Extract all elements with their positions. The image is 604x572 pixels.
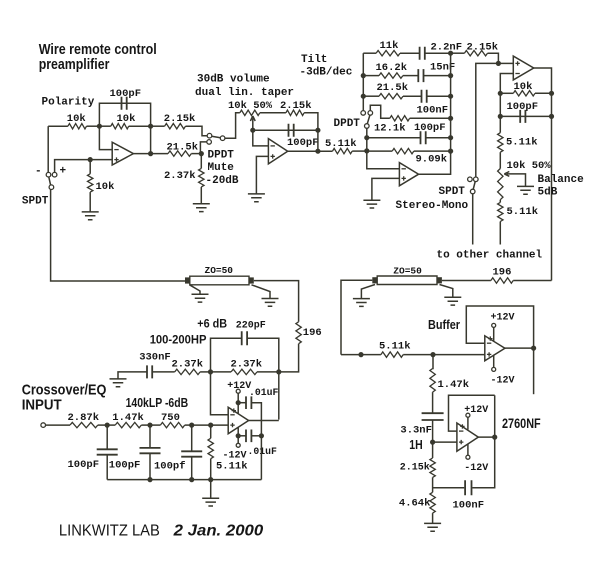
label 10k 50% <box>228 100 273 112</box>
capacitor 15nF <box>418 69 423 82</box>
wiper arrow volume pot <box>250 116 255 130</box>
resistor 2.37k hp feedback <box>231 369 257 374</box>
svg-text:2.15k: 2.15k <box>280 100 312 112</box>
node vol fb left <box>250 128 255 133</box>
node rbus row1 <box>448 51 453 56</box>
ground under U2 <box>248 194 265 202</box>
wire 5.11k to rail <box>210 459 212 480</box>
DPDT tilt lever <box>367 115 370 124</box>
tilt right bus <box>450 53 452 151</box>
wire -12V to U5 <box>237 427 239 443</box>
node lp3 <box>189 423 194 428</box>
label .01uF bottom <box>248 446 278 457</box>
svg-text:5.11k: 5.11k <box>325 138 357 150</box>
svg-text:3.3nF: 3.3nF <box>400 424 432 436</box>
signature LINKWITZ LAB <box>59 522 160 539</box>
wire chain top <box>499 93 501 132</box>
wire coax2 right to 196 <box>442 280 491 282</box>
label Tilt <box>301 54 327 66</box>
wire 2.15k to mute pole <box>186 126 208 136</box>
wire R10k to node A1 <box>87 125 100 127</box>
ground coax2 left <box>353 299 370 307</box>
coax 1 left ground stub <box>190 285 201 295</box>
wire cap loop <box>99 103 150 126</box>
wire 2.15k to junction <box>432 477 434 492</box>
wire n2 to 750 <box>150 424 160 426</box>
label plus polarity <box>60 166 67 178</box>
wire input to 2.87k <box>46 424 71 426</box>
resistor 2.15k vol feedback <box>286 110 304 115</box>
wire mono output <box>418 151 450 174</box>
resistor 16.2k <box>379 73 403 78</box>
buffer feedback box <box>466 306 533 348</box>
node vol fb right <box>315 128 320 133</box>
power terminal -12V U5 <box>236 443 240 447</box>
label 30dB volume <box>197 74 270 86</box>
resistor 2.15k sum <box>464 51 487 56</box>
wire mono pole down <box>472 194 474 245</box>
svg-text:5.11k: 5.11k <box>379 341 411 353</box>
label 100pF lp2 <box>109 460 141 472</box>
ground coax2 right <box>444 297 461 305</box>
label ZO=50 coax1 <box>205 265 234 276</box>
op-amp U3 stereo-mono <box>399 163 418 186</box>
coax 2 right ground stub <box>440 285 453 298</box>
node bus B row5 <box>364 135 369 140</box>
node lp1 <box>105 423 110 428</box>
svg-text:Tilt: Tilt <box>301 54 327 66</box>
node rbus row3 <box>448 94 453 99</box>
wire row2 mid <box>403 75 418 77</box>
wire vol fb row <box>253 129 318 131</box>
label Buffer <box>428 317 460 332</box>
node bypass bottom <box>236 433 241 438</box>
svg-text:ZO=50: ZO=50 <box>205 265 234 276</box>
label 3.3nF <box>400 424 432 436</box>
DPDT mute throw2 <box>207 140 212 145</box>
svg-text:100pF: 100pF <box>507 101 539 113</box>
wire pot to 2.15k <box>260 112 286 114</box>
node lp2 <box>147 423 152 428</box>
node fb 10k left <box>498 91 503 96</box>
label DPDT mute <box>208 150 235 162</box>
wire mute throw2 to divider <box>200 142 206 154</box>
capacitor 100nF tilt <box>422 90 427 103</box>
label 16.2k <box>376 62 408 74</box>
ground 330nF <box>110 379 127 387</box>
SPDT polarity throw + <box>52 172 57 177</box>
label 5dB <box>538 186 558 198</box>
svg-text:2.37k: 2.37k <box>172 359 204 371</box>
wire node B to 196 <box>279 344 299 372</box>
wire 5.11k to node <box>352 150 367 152</box>
resistor 21.5k <box>168 151 191 156</box>
svg-text:21.5k: 21.5k <box>167 141 199 153</box>
label 100pF tilt <box>414 122 446 134</box>
svg-text:1.47k: 1.47k <box>112 412 144 424</box>
coax 2 right cap <box>437 277 442 283</box>
wire 10k gnd top <box>89 160 91 174</box>
svg-text:21.5k: 21.5k <box>377 82 409 94</box>
DPDT mute throw1 <box>220 136 225 141</box>
label dual lin. taper <box>195 87 294 99</box>
svg-text:4.64k: 4.64k <box>399 498 431 510</box>
wire buffer output <box>505 347 534 349</box>
svg-text:100pF: 100pF <box>287 137 319 149</box>
svg-text:Polarity: Polarity <box>42 96 95 108</box>
label 2760NF <box>502 416 541 431</box>
wire hp fb loop <box>211 338 242 372</box>
resistor 12.1k <box>390 116 410 121</box>
wire node down to 1.47k <box>432 355 434 369</box>
coax 2 body <box>377 276 437 285</box>
wire 750 to n3 <box>185 424 192 426</box>
wire 10k fb row <box>500 92 513 94</box>
node A1 junction <box>97 124 102 129</box>
input terminal <box>41 423 46 428</box>
wire bypass top lead <box>238 402 246 404</box>
label 2.37k hp1 <box>172 359 204 371</box>
svg-text:2760NF: 2760NF <box>502 416 541 431</box>
svg-text:2.2nF: 2.2nF <box>431 41 463 53</box>
ground coax1 left <box>192 294 209 302</box>
wire -12V to buffer <box>493 355 495 368</box>
wire 100pF row sum <box>500 115 551 117</box>
node bypass top <box>236 400 241 405</box>
wire 1.47k to n2 <box>141 424 150 426</box>
power terminal -12V 2760 <box>466 455 470 459</box>
label 100pF <box>110 88 142 100</box>
capacitor 100pf lp3 top lead <box>191 425 193 451</box>
node rbus row4 <box>448 116 453 121</box>
svg-text:2.37k: 2.37k <box>164 170 196 182</box>
wire 10k fb right <box>535 92 552 94</box>
wire row3 left <box>363 95 379 97</box>
wire row5 <box>367 137 421 139</box>
node rail 3 <box>189 477 194 482</box>
wire row3 mid <box>403 95 422 97</box>
svg-text:196: 196 <box>493 266 512 278</box>
wire 2.15k to right <box>304 113 318 130</box>
label 5.11k upper <box>506 136 538 148</box>
coax 1 body <box>190 276 249 285</box>
wire U2 output <box>288 150 333 152</box>
wire pot to 5.11k lower <box>499 200 501 203</box>
resistor 4.64k <box>430 492 435 513</box>
resistor 5.11k lp <box>208 438 213 458</box>
wire 2.15k to sum node <box>488 53 499 63</box>
label 10k sum <box>514 81 533 93</box>
wire coax2 left <box>341 280 372 354</box>
svg-text:100nF: 100nF <box>417 105 449 117</box>
SPDT polarity throw - <box>46 172 51 177</box>
svg-text:dual lin. taper: dual lin. taper <box>195 87 294 99</box>
svg-text:750: 750 <box>161 412 180 424</box>
wire node B1 down to output <box>150 126 152 153</box>
wire node to 9.09k <box>367 150 392 152</box>
capacitor 100pF lp2 bottom lead <box>149 453 151 479</box>
wire n1 to 1.47k <box>107 424 115 426</box>
svg-text:30dB volume: 30dB volume <box>197 74 270 86</box>
label 2.15k sum <box>467 41 499 53</box>
node buffer output <box>531 346 536 351</box>
ground 2760 chain <box>424 523 441 531</box>
label 196 coax <box>303 327 322 339</box>
node rail 4 <box>208 477 213 482</box>
svg-text:10k: 10k <box>514 81 533 93</box>
svg-text:ZO=50: ZO=50 <box>393 265 422 276</box>
wire row1 right <box>425 52 451 54</box>
label +12V 2760 <box>464 405 488 416</box>
label -12V 2760 <box>464 463 488 474</box>
label +12V buffer <box>491 313 515 324</box>
resistor 5.11k upper <box>498 133 503 153</box>
wire vol inv input <box>253 130 269 146</box>
svg-text:100pF: 100pF <box>109 460 141 472</box>
svg-text:2.15k: 2.15k <box>400 462 430 474</box>
svg-text:SPDT: SPDT <box>439 186 466 198</box>
node 100pF left <box>498 114 503 119</box>
svg-text:SPDT: SPDT <box>22 196 49 208</box>
wire -12V to 2760 <box>467 444 469 455</box>
svg-text:5.11k: 5.11k <box>506 136 538 148</box>
resistor 21.5k tilt <box>379 94 403 99</box>
resistor 196 coax <box>296 322 301 344</box>
svg-text:10k: 10k <box>96 181 115 193</box>
label 2.37k hp2 <box>231 359 263 371</box>
wire sum node to + <box>498 62 513 64</box>
resistor 10k input <box>68 124 87 129</box>
ground under U3 <box>363 200 380 208</box>
label minus polarity <box>35 166 42 178</box>
node 100pF right <box>549 114 554 119</box>
label 1.47k buf <box>438 379 470 391</box>
wire vol + to ground <box>256 156 268 194</box>
wiper arrow balance <box>504 172 516 177</box>
resistor 1.47k lp <box>115 422 141 427</box>
label 2.15k vol fb <box>280 100 312 112</box>
2760 feedback box <box>449 395 495 431</box>
label Mute <box>208 162 235 174</box>
op-amp U1 polarity <box>112 142 133 165</box>
label 100pF lp1 <box>68 459 100 471</box>
node lp4 <box>208 423 213 428</box>
power terminal -12V buffer <box>492 367 496 371</box>
DPDT tilt throw left <box>361 111 366 116</box>
wire divider node down <box>200 154 202 169</box>
wire tilt pole down <box>367 128 400 169</box>
svg-text:11k: 11k <box>380 40 399 52</box>
label Crossover/EQ <box>22 381 107 398</box>
ground coax1 right <box>262 299 279 307</box>
wire 220pF right <box>247 338 279 372</box>
capacitor 100pf lp3 <box>181 451 202 456</box>
svg-text:-20dB: -20dB <box>206 175 239 187</box>
resistor 1.47k buf <box>430 369 435 393</box>
svg-text:Mute: Mute <box>208 162 235 174</box>
wire bypass bottom leads <box>238 435 246 437</box>
op-amp U4 summing <box>513 56 533 80</box>
DPDT mute lever <box>212 136 221 138</box>
resistor 2.37k to ground <box>199 168 204 187</box>
node bus row3 <box>361 94 366 99</box>
label to other channel <box>437 250 543 262</box>
node B1 junction <box>148 124 153 129</box>
node bypass link bottom <box>259 433 264 438</box>
resistor 750 <box>160 422 184 427</box>
label 5.11k mono <box>325 138 357 150</box>
wire noninverting input <box>55 160 113 173</box>
wire gnd to 330nF <box>118 372 147 379</box>
wire row4 right <box>410 117 451 119</box>
wire 2.37k fb to node B <box>257 371 279 373</box>
node bus row2 <box>361 73 366 78</box>
capacitor 100pF lp1 top lead <box>106 425 108 449</box>
svg-text:-12V: -12V <box>491 375 515 386</box>
wire +12V to U5 <box>237 393 239 413</box>
label 2.15k chain <box>400 462 430 474</box>
resistor 196 channel <box>491 278 513 283</box>
label 196 channel <box>493 266 512 278</box>
ground rail <box>107 479 261 481</box>
label ZO=50 coax2 <box>393 265 422 276</box>
label 330nF <box>139 351 171 363</box>
label 1H <box>409 437 422 452</box>
signature date <box>173 522 264 539</box>
capacitor 100pF sum <box>520 110 525 123</box>
DPDT tilt pole <box>365 124 370 129</box>
svg-text:100-200HP: 100-200HP <box>150 333 207 347</box>
svg-text:Stereo-Mono: Stereo-Mono <box>396 200 469 212</box>
wire U5 output <box>248 420 278 422</box>
op-amp U5 140kLP <box>228 407 248 434</box>
wire row2 left <box>363 75 379 77</box>
wire row5 right <box>426 137 451 139</box>
wire 10k to ground sym <box>89 192 91 212</box>
svg-text:Buffer: Buffer <box>428 317 460 332</box>
capacitor 100pF lp1 <box>97 449 118 454</box>
svg-text:220pF: 220pF <box>236 321 266 332</box>
node 1H <box>430 440 435 445</box>
wire node B down to U5 out <box>278 372 280 420</box>
svg-text:15nF: 15nF <box>430 62 455 74</box>
resistor 10k to ground <box>88 174 93 192</box>
coax 1 right cap <box>249 277 254 283</box>
node buffer in mystery <box>358 352 363 357</box>
node B hp <box>276 369 281 374</box>
capacitor .01uF bottom <box>246 430 251 443</box>
svg-text:2.87k: 2.87k <box>68 412 100 424</box>
label 21.5k tilt <box>377 82 409 94</box>
wire row3 right <box>427 95 451 97</box>
wire 5.11k to pot <box>499 152 501 168</box>
wire mono + to gnd <box>372 178 400 200</box>
wire rail to ground <box>210 480 212 499</box>
svg-text:5dB: 5dB <box>538 186 558 198</box>
capacitor 100pF polarity feedback <box>122 97 127 110</box>
SPDT polarity lever <box>49 177 51 185</box>
svg-text:10k 50%: 10k 50% <box>228 100 273 112</box>
label 100nF <box>417 105 449 117</box>
wire row2 right <box>424 75 451 77</box>
wire bypass to rail <box>260 436 262 480</box>
label 2.87k <box>68 412 100 424</box>
wire n3 to n4 <box>192 424 211 426</box>
svg-text:2.15k: 2.15k <box>467 41 499 53</box>
node buffer input <box>430 352 435 357</box>
label 2.15k <box>164 113 196 125</box>
svg-text:10k: 10k <box>117 113 136 125</box>
label 220pF <box>236 321 266 332</box>
svg-text:preamplifier: preamplifier <box>39 56 110 73</box>
wire buffer + row <box>341 354 381 356</box>
wire input to R 10k <box>48 125 68 127</box>
coax 2 left ground stub <box>361 285 375 299</box>
svg-text:Balance: Balance <box>538 174 585 186</box>
wire 2.37k to node A <box>200 371 210 373</box>
label -12V buffer <box>491 375 515 386</box>
resistor 10k sum fb <box>513 91 535 96</box>
wire sum node to mono switch <box>476 63 499 177</box>
wire 5.11k to buffer node <box>403 354 433 356</box>
node bus B row6 <box>364 148 369 153</box>
ground balance wiper <box>517 186 534 194</box>
svg-text:-: - <box>35 166 42 178</box>
resistor 2.15k <box>165 124 186 129</box>
wire throw1 to pot <box>225 113 240 138</box>
node rbus row2 <box>448 73 453 78</box>
label 2.37k <box>164 170 196 182</box>
wire Rfb to node B1 <box>129 125 151 127</box>
svg-text:100pF: 100pF <box>414 122 446 134</box>
wire n4 to U5 + <box>211 424 229 426</box>
op-amp U7 2760NF <box>457 423 478 451</box>
potentiometer 10k balance <box>498 169 503 200</box>
label -12V U5 <box>223 450 247 461</box>
capacitor 100nF fb <box>465 480 471 495</box>
op-amp U6 buffer <box>485 336 505 361</box>
capacitor 3.3nF <box>422 413 444 420</box>
svg-text:-3dB/dec: -3dB/dec <box>300 67 353 79</box>
wire U1 out to 21.5k <box>133 153 168 155</box>
svg-text:10k 50%: 10k 50% <box>507 160 552 172</box>
label .01uF top <box>249 387 279 398</box>
wire 9.09k right <box>414 150 451 152</box>
capacitor 100pf lp3 bottom lead <box>191 457 193 480</box>
wire bypass link <box>251 403 261 436</box>
label 1.47k lp <box>112 412 144 424</box>
svg-text:LINKWITZ LAB: LINKWITZ LAB <box>59 522 160 539</box>
wire row1 mid <box>400 52 420 54</box>
ground under 2.37k <box>193 204 210 212</box>
wire row1 to 2.15k sum <box>451 52 465 54</box>
wire node to buffer + <box>433 354 485 356</box>
label Stereo-Mono <box>396 200 469 212</box>
wire 1H to 2.15k <box>432 442 434 458</box>
label 11k <box>380 40 399 52</box>
label 10k feedback <box>117 113 136 125</box>
label DPDT tilt <box>334 118 361 130</box>
wire node B1 to R 2.15k <box>151 125 165 127</box>
resistor 11k <box>376 51 400 56</box>
capacitor 100pF lp2 top lead <box>149 425 151 448</box>
node + input junction <box>88 157 93 162</box>
label 12.1k <box>374 122 406 134</box>
node fb 10k right <box>549 91 554 96</box>
resistor 5.11k buffer <box>381 352 403 357</box>
wire coax1 right <box>254 281 299 322</box>
svg-text:.01uF: .01uF <box>249 387 279 398</box>
